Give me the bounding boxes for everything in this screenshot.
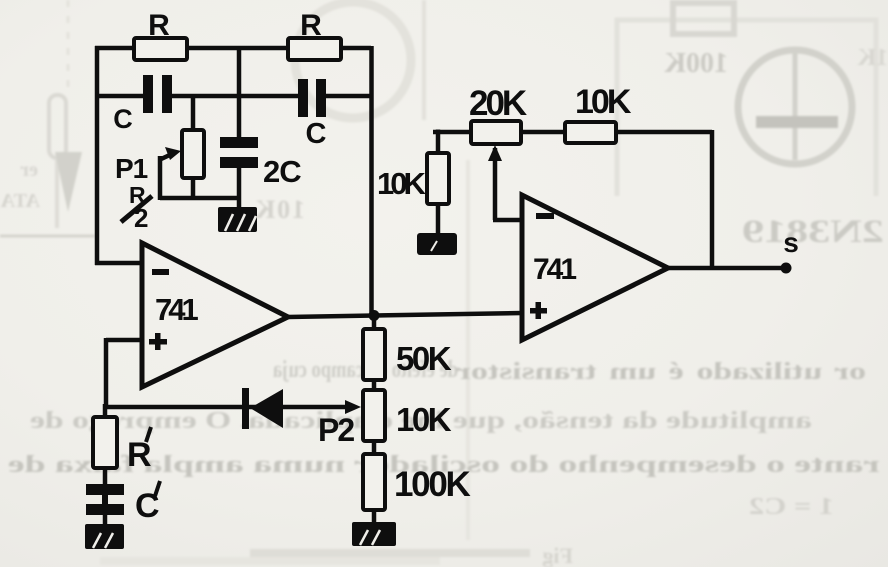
svg-text:741: 741 [155, 292, 198, 327]
svg-text:2C: 2C [263, 154, 301, 189]
svg-text:20K: 20K [469, 84, 527, 123]
svg-text:P2: P2 [318, 412, 354, 448]
svg-text:10K: 10K [396, 401, 452, 438]
svg-text:100K: 100K [664, 48, 728, 79]
svg-text:10K: 10K [254, 195, 305, 224]
svg-text:10K: 10K [377, 166, 426, 201]
svg-text:1K: 1K [857, 45, 888, 71]
svg-text:2N3819: 2N3819 [742, 214, 884, 250]
svg-text:R: R [148, 9, 170, 42]
svg-text:100K: 100K [394, 465, 470, 504]
svg-text:Fig: Fig [542, 543, 573, 567]
svg-text:P1: P1 [115, 153, 148, 184]
svg-text:C: C [306, 118, 327, 150]
svg-text:741: 741 [533, 253, 576, 286]
svg-text:50K: 50K [396, 340, 452, 377]
svg-text:1 = C2: 1 = C2 [749, 494, 834, 520]
svg-text:or utilizado é um transistor: or utilizado é um transistor [456, 359, 866, 385]
svg-text:ATA: ATA [0, 190, 40, 212]
svg-text:s: s [783, 227, 799, 258]
svg-text:10K: 10K [575, 83, 632, 121]
svg-text:C: C [113, 104, 133, 134]
svg-text:er: er [20, 159, 38, 181]
svg-text:R: R [300, 9, 322, 42]
